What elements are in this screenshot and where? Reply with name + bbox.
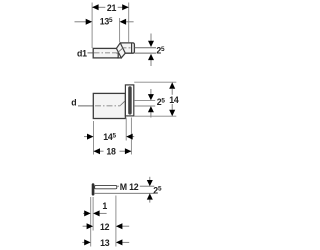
- cap line on upper tube: [131, 43, 133, 53]
- label M 12 (with white backing): [119, 182, 140, 192]
- tube d1 lower body: [93, 48, 118, 58]
- flange outer: [125, 85, 133, 116]
- cylinder body: [93, 93, 125, 118]
- dimension 2.5 (view3): [147, 177, 162, 203]
- extension line right for 21 (x=128.7): [128, 3, 130, 43]
- extension line left (x=92.1): [91, 3, 93, 49]
- screw head: [92, 183, 95, 195]
- extension line right for 13.5 (x=119.6): [119, 18, 121, 42]
- flange groove strip: [128, 86, 132, 114]
- svg-text:d1: d1: [77, 48, 87, 58]
- centerline view2: [95, 101, 125, 106]
- svg-text:1: 1: [102, 201, 107, 211]
- dimension 2.5 (view2): [148, 89, 165, 118]
- extension line bottom left (x=93.5): [93, 121, 95, 155]
- dimension 12: [83, 222, 130, 232]
- dimension 18: [94, 147, 132, 157]
- svg-text:13: 13: [100, 238, 110, 248]
- dimension 13.5: [75, 17, 134, 27]
- dimension 14 (vertical): [169, 82, 179, 116]
- dimension 1: [83, 201, 107, 217]
- dimension 2.5 (view1 right): [148, 34, 165, 67]
- svg-text:21: 21: [107, 3, 117, 13]
- extension line head-right (x=93.6): [92, 197, 94, 231]
- dimension 13: [82, 238, 129, 248]
- centerline view1: [94, 48, 131, 54]
- extension lines for 14 (view2 right): [134, 81, 176, 83]
- bottom line of rod outline: [95, 192, 155, 194]
- svg-text:d: d: [71, 97, 76, 107]
- svg-text:12: 12: [100, 222, 110, 232]
- leader line from d: [78, 105, 93, 107]
- extension line rod-end (x=116.2): [115, 196, 117, 247]
- extension line bottom right (x=131.4): [130, 118, 132, 155]
- thin tube right (wire pair): [135, 47, 156, 49]
- upper tube body: [120, 43, 134, 53]
- svg-text:14: 14: [169, 95, 179, 105]
- dimension 14.5: [84, 132, 134, 142]
- dimension 21: [92, 3, 129, 13]
- leader line from d1: [88, 52, 94, 54]
- top ext line for 2.5 (view3): [117, 185, 154, 187]
- extension line head-left (x=91.2): [90, 197, 92, 247]
- screw rod: [95, 185, 117, 188]
- svg-text:M 12: M 12: [120, 182, 139, 192]
- svg-text:18: 18: [106, 147, 116, 157]
- joint diamond: [116, 43, 125, 58]
- extension line bottom mid (x=126.2): [125, 118, 127, 141]
- tube d1 bottom edge extension to diamond corner: [117, 57, 121, 59]
- extension lines groove 2.5 (view2): [134, 99, 155, 101]
